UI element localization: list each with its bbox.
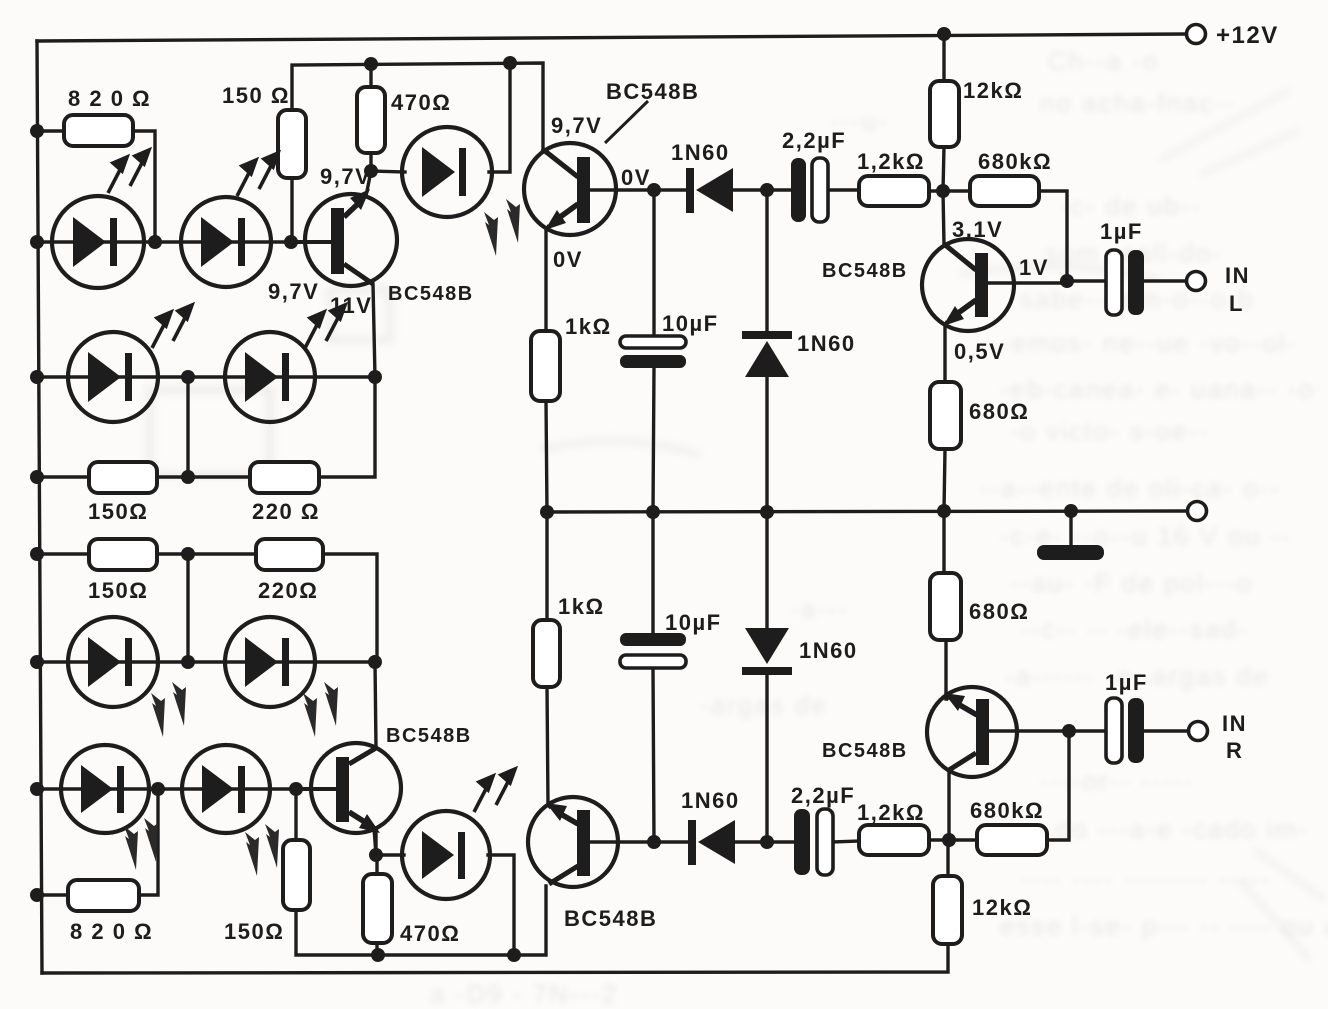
LED chip D1e — [422, 147, 455, 197]
light arrows LED D1b — [237, 153, 278, 196]
diode D6 1N60 vertical top — [742, 331, 792, 377]
light arrows LED D2a — [152, 305, 192, 348]
transistor Q4b BC548B bottom driver — [528, 797, 618, 887]
svg-text:9,7V: 9,7V — [320, 164, 371, 189]
terminal +12V — [1187, 25, 1206, 44]
svg-text:-a---: -a--- — [790, 594, 849, 624]
svg-text:8 2 0 Ω: 8 2 0 Ω — [70, 919, 153, 944]
light arrows LED D2b — [305, 305, 345, 348]
wire 1k bottom to Q4b emitter — [547, 687, 548, 805]
wire 10uF top hang — [652, 190, 655, 336]
node top net LED5 — [503, 56, 517, 70]
node bottom net 470 — [371, 948, 385, 962]
node 12k 1,2k 680k — [936, 184, 950, 198]
svg-text:-o victo- s-oe--: -o victo- s-oe-- — [1010, 416, 1210, 446]
svg-text:150Ω: 150Ω — [88, 499, 148, 524]
node Q3 base 10uF — [647, 183, 661, 197]
transistor Q4 BC548B left channel — [922, 239, 1014, 331]
resistor 470ohm top vertical — [357, 87, 385, 153]
node border 150 lower — [30, 547, 44, 561]
wire 1uF bottom to IN R — [1144, 729, 1188, 732]
svg-text:0V: 0V — [621, 165, 651, 190]
resistor 680k bottom — [977, 825, 1047, 855]
wire 680k top right lead up-down — [1039, 191, 1067, 281]
capacitor 2,2uF bottom — [794, 809, 833, 875]
svg-text:680Ω: 680Ω — [969, 599, 1029, 624]
node bottom net LED10 — [507, 948, 521, 962]
svg-text:BC548B: BC548B — [822, 740, 908, 762]
capacitor 1uF bottom — [1106, 698, 1144, 763]
node D7 D8 — [760, 835, 774, 849]
svg-text:----or-- -----: ----or-- ----- — [1040, 766, 1194, 796]
svg-text:1kΩ: 1kΩ — [558, 594, 605, 619]
wire 820ohm top leads — [37, 129, 64, 132]
svg-text:12kΩ: 12kΩ — [963, 78, 1023, 103]
resistor 470ohm bottom vertical — [363, 874, 392, 943]
wire Q2 emitter to LED10 node — [374, 831, 377, 855]
wire 680 bottom leads — [942, 511, 945, 573]
resistor 1,2k bottom — [859, 825, 929, 855]
wire 10uF top to mid rail — [653, 368, 654, 512]
svg-text:R: R — [1226, 738, 1243, 763]
svg-text:IN: IN — [1222, 711, 1247, 736]
LED chip D2a — [88, 352, 121, 402]
node Q1 emitter — [364, 164, 378, 178]
svg-text:680kΩ: 680kΩ — [978, 149, 1052, 174]
wire D8 to 2,2uF bottom — [733, 840, 794, 843]
resistor 820ohm top — [64, 115, 133, 146]
LED D3a row3 — [68, 617, 158, 707]
LED D1a row1 — [52, 196, 144, 288]
wire 680 top to mid rail — [944, 449, 945, 511]
svg-text:9,7V: 9,7V — [551, 113, 602, 138]
svg-text:BC548B: BC548B — [388, 283, 474, 305]
svg-text:2,2µF: 2,2µF — [782, 128, 846, 153]
wire 2,2uF top to 1,2k — [828, 188, 859, 191]
svg-text:--au- -F de pol---o: --au- -F de pol---o — [1010, 568, 1253, 598]
wire LED row 1 — [37, 240, 331, 243]
capacitor 1uF top — [1106, 250, 1144, 315]
wire Q4b base to D8 — [590, 840, 688, 843]
ground blob on mid rail — [1037, 545, 1104, 560]
resistor 12k bottom — [933, 876, 962, 944]
svg-text:-argas de: -argas de — [700, 690, 828, 720]
wire 220ohm lower leads — [188, 552, 256, 555]
wire 150ohm lower leads — [37, 552, 89, 555]
wire D7 hang — [765, 512, 768, 628]
wire 12k top leads — [942, 34, 945, 81]
wire node to 1uF top — [1067, 279, 1106, 282]
wire 12k bottom leads — [946, 840, 949, 876]
resistor 150ohm bottom vertical — [283, 840, 310, 910]
wire 150ohm top vertical leads — [292, 63, 543, 150]
node border 820 bottom — [30, 888, 44, 902]
svg-text:BC548B: BC548B — [386, 725, 472, 747]
svg-text:L: L — [1229, 291, 1244, 316]
wire D5 to node 767 — [733, 188, 791, 191]
resistor 12k top — [930, 81, 959, 147]
svg-text:1N60: 1N60 — [797, 331, 856, 356]
wire 10uF bottom to Q4b base line — [653, 668, 654, 842]
wire D7 to node 767 bottom — [765, 674, 768, 842]
wire LED10 anode — [376, 853, 404, 856]
node top rail 12k — [937, 27, 951, 41]
wire Q2 collector up to row 3 — [375, 662, 376, 748]
svg-text:12kΩ: 12kΩ — [972, 895, 1032, 920]
svg-text:1N60: 1N60 — [799, 638, 858, 663]
svg-text:8 2 0 Ω: 8 2 0 Ω — [68, 86, 151, 111]
svg-text:680Ω: 680Ω — [969, 399, 1029, 424]
wire bottom ground rail — [42, 944, 948, 973]
leader line BC548B to Q3 — [605, 101, 648, 143]
svg-text:680kΩ: 680kΩ — [970, 798, 1044, 823]
node mid rail 680 — [937, 504, 951, 518]
resistor 680 bottom — [930, 573, 961, 640]
node 1,2k bottom — [942, 833, 956, 847]
svg-text:1N60: 1N60 — [671, 140, 730, 165]
svg-text:no acha-fnac--: no acha-fnac-- — [1040, 88, 1236, 118]
wire 220ohm mid leads — [188, 475, 250, 478]
light wedge arrows LED D4b — [245, 824, 279, 876]
wire node to 1uF bottom — [1069, 729, 1106, 732]
LED chip D4a — [81, 765, 113, 813]
light arrows LED D1a — [108, 150, 149, 193]
svg-text:9,7V: 9,7V — [268, 279, 319, 304]
LED chip D4b — [202, 765, 234, 813]
LED D4a row4 — [61, 745, 149, 833]
light wedge arrows LED D3a — [151, 682, 186, 737]
LED D4e 470ohm bottom — [402, 811, 490, 899]
svg-text:470Ω: 470Ω — [391, 90, 451, 115]
wire LED row 4 — [37, 787, 336, 790]
wire 1,2k bottom right lead — [929, 838, 977, 841]
wire LED row 2 — [37, 375, 375, 378]
light wedge arrows LED D1e — [484, 199, 520, 256]
node Q4 base — [1060, 274, 1074, 288]
node row1 a — [148, 235, 162, 249]
resistor 1k bottom — [533, 620, 560, 687]
node mid rail 1k — [540, 505, 554, 519]
resistor 150ohm mid — [89, 462, 157, 493]
svg-text:1µF: 1µF — [1100, 219, 1143, 244]
wire node767 down to D6 — [765, 190, 768, 331]
resistor 150ohm lower — [89, 539, 157, 570]
transistor Q2 BC548B bottom-left — [296, 743, 401, 855]
resistor 1,2k top — [859, 176, 929, 206]
svg-text:0V: 0V — [553, 247, 583, 272]
wire 820ohm bottom leads — [37, 893, 68, 896]
svg-text:150Ω: 150Ω — [88, 578, 148, 603]
wire LED10 cathode down — [488, 855, 514, 955]
terminal IN R — [1189, 722, 1208, 741]
wire Q1 collector down to row 2 — [373, 284, 375, 377]
svg-text:BC548B: BC548B — [564, 906, 657, 931]
wire mid rail to 1k bottom — [545, 512, 548, 620]
node mid rail 10uF — [646, 505, 660, 519]
resistor 220ohm lower — [256, 539, 323, 570]
svg-text:1V: 1V — [1019, 255, 1049, 280]
node row3 a — [181, 655, 195, 669]
wire Q4 collector — [943, 191, 944, 245]
wire Q3 collector from top net — [543, 150, 545, 152]
node Q2 emitter — [369, 848, 383, 862]
LED chip D1a — [73, 217, 106, 267]
svg-text:---- ---- -------- -----: ---- ---- -------- ----- — [1020, 864, 1272, 894]
node top net 470 — [364, 57, 378, 71]
capacitor 10uF top — [620, 336, 686, 368]
wire LED5 anode — [371, 171, 405, 172]
svg-text:220Ω: 220Ω — [258, 578, 318, 603]
node row4 a — [151, 782, 165, 796]
node row4 b — [289, 782, 303, 796]
LED chip D4e — [422, 831, 454, 879]
capacitor 2,2uF top — [791, 158, 828, 222]
svg-text:--c-- -- -ele--sad-: --c-- -- -ele--sad- — [1020, 614, 1249, 644]
node border row2 — [30, 370, 44, 384]
resistor 1k top — [531, 331, 560, 401]
node row1 b — [284, 235, 298, 249]
svg-text:470Ω: 470Ω — [400, 921, 460, 946]
wire +12V top rail — [37, 34, 1186, 41]
node border 820 top — [30, 124, 44, 138]
LED D2b row2 — [225, 332, 315, 422]
terminal IN L — [1187, 272, 1206, 291]
node Q4b base 10uF — [647, 835, 661, 849]
transistor Q1 BC548B top-left — [296, 171, 397, 286]
LED chip D3a — [88, 637, 121, 687]
svg-text:11V: 11V — [330, 293, 372, 318]
svg-text:--a--ente de oli-ca- o--: --a--ente de oli-ca- o-- — [980, 473, 1281, 503]
wire 470ohm bottom leads — [375, 855, 378, 874]
wire LED row 3 — [37, 660, 377, 663]
node border row1 — [30, 235, 44, 249]
wire 470ohm top leads — [369, 64, 372, 87]
LED D2a row2 — [68, 332, 158, 422]
node row3 b — [368, 655, 382, 669]
svg-text:1,2kΩ: 1,2kΩ — [857, 800, 925, 825]
svg-text:150 Ω: 150 Ω — [222, 83, 290, 108]
node row2 a — [181, 370, 195, 384]
node 150-220 mid — [181, 470, 195, 484]
wire 2,2uF bottom to 1,2k bottom — [833, 841, 859, 842]
node Q5 base — [1062, 724, 1076, 738]
LED D4b row4 — [182, 745, 270, 833]
svg-text:220 Ω: 220 Ω — [252, 499, 320, 524]
svg-text:10µF: 10µF — [665, 610, 722, 635]
capacitor 10uF bottom — [620, 633, 686, 668]
resistor 220ohm mid — [250, 462, 319, 493]
svg-text:-c- de ub--: -c- de ub-- — [1060, 191, 1202, 221]
node border row3 — [30, 655, 44, 669]
wire 1k top to mid rail — [546, 401, 547, 512]
svg-text:1,2kΩ: 1,2kΩ — [857, 149, 925, 174]
svg-text:150Ω: 150Ω — [224, 919, 284, 944]
wire D6 to mid rail — [765, 377, 768, 512]
wire Q3 base to diode D5 — [590, 188, 688, 191]
svg-text:3,1V: 3,1V — [952, 217, 1003, 242]
wire 680k bottom right lead — [1047, 731, 1069, 840]
wire Q4 base to node — [988, 281, 1067, 284]
diode D5 1N60 horizontal top — [686, 168, 733, 213]
node D5 D6 — [760, 183, 774, 197]
wire junction 188 down — [186, 554, 189, 662]
transistor Q3 BC548B top driver — [524, 143, 616, 235]
node row2 b — [368, 370, 382, 384]
node mid rail blob — [1064, 504, 1078, 518]
diode D8 1N60 horizontal bottom — [688, 820, 735, 865]
light wedge arrows LED D3b — [303, 682, 338, 737]
wire Q5 base to node — [989, 729, 1069, 732]
svg-text:Ch--a -o: Ch--a -o — [1048, 46, 1159, 76]
transistor Q5 BC548B right channel — [927, 687, 1017, 777]
LED chip D3b — [245, 637, 278, 687]
wire junction 188 up — [186, 377, 189, 477]
wire mid rail to 10uF bottom — [651, 512, 654, 633]
resistor 150ohm top vertical — [278, 110, 306, 178]
svg-text:+12V: +12V — [1216, 22, 1279, 49]
svg-text:-eb-canea- e- uana-- -o: -eb-canea- e- uana-- -o — [1000, 374, 1315, 404]
LED D1e 470ohm top — [402, 127, 492, 217]
resistor 680 top — [930, 382, 961, 449]
wire 1uF top to IN L — [1144, 279, 1186, 282]
light wedge arrows LED D4a — [124, 818, 158, 870]
node 150-220 lower — [181, 547, 195, 561]
resistor 680k top — [970, 176, 1039, 206]
svg-text:BC548B: BC548B — [606, 79, 699, 104]
light arrows LED D4e — [474, 769, 515, 812]
wire 150ohm mid leads — [37, 475, 89, 478]
resistor 820ohm bottom — [68, 880, 139, 911]
svg-text:10µF: 10µF — [662, 311, 719, 336]
wire 1,2k top right lead — [929, 189, 970, 192]
svg-text:0,5V: 0,5V — [954, 339, 1005, 364]
diode D7 1N60 vertical bottom — [742, 628, 792, 675]
svg-text:IN: IN — [1225, 263, 1250, 288]
LED chip D2b — [245, 352, 278, 402]
wire mid rail blob drop — [1069, 511, 1072, 545]
wire Q3 emitter down to 1k — [544, 230, 547, 331]
terminal mid rail — [1188, 502, 1207, 521]
svg-text:1kΩ: 1kΩ — [565, 314, 612, 339]
wire LED5 cathode up to collector net — [489, 63, 510, 172]
wire mid rail — [547, 511, 1186, 512]
svg-text:a -D9 - 7N---2: a -D9 - 7N---2 — [430, 979, 618, 1009]
wire 150ohm bottom vertical leads — [294, 789, 297, 840]
svg-text:--emos- ne--ue -vo--ol-: --emos- ne--ue -vo--ol- — [990, 328, 1298, 358]
svg-text:1N60: 1N60 — [681, 788, 740, 813]
LED chip D1b — [201, 217, 234, 267]
LED D3b row3 — [225, 617, 315, 707]
LED D1b row1 — [181, 197, 271, 287]
wire Q4 emitter down to 680 top — [943, 327, 946, 382]
wire left border — [37, 41, 42, 973]
wire Q5 collector down — [947, 770, 950, 840]
svg-text:BC548B: BC548B — [822, 260, 908, 282]
svg-text:1µF: 1µF — [1105, 670, 1148, 695]
svg-text:2,2µF: 2,2µF — [791, 783, 855, 808]
node mid rail 1N60 — [760, 505, 774, 519]
node border 150 mid — [30, 470, 44, 484]
node border row4 — [30, 782, 44, 796]
